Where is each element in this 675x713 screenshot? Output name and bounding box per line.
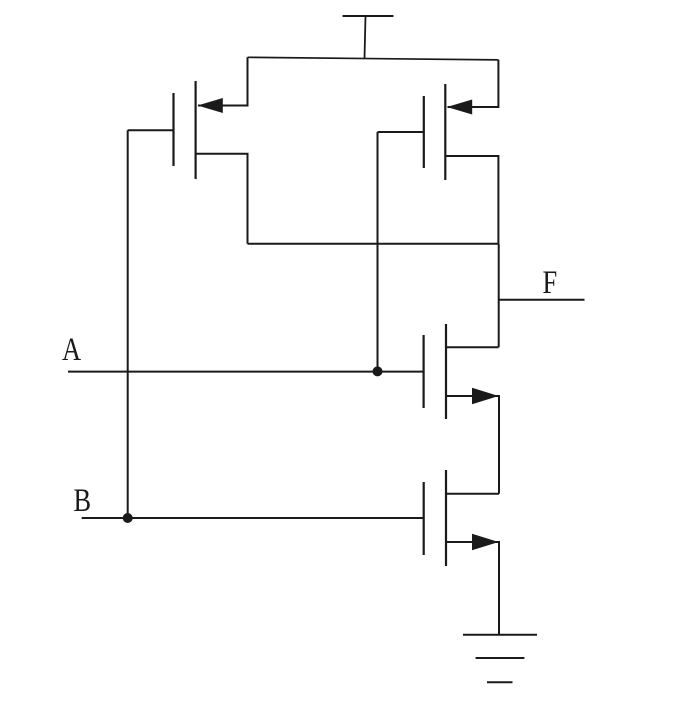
wire Q4 drain stub xyxy=(446,493,499,495)
wire output net horizontal xyxy=(248,243,499,245)
wire Q2 gate stub xyxy=(378,131,424,133)
wire Q2 source to VDD rail xyxy=(448,60,499,107)
Q1 source arrow xyxy=(198,98,223,113)
wire Q3 source down to Q4 drain xyxy=(446,396,499,494)
wire Q3 drain to output net xyxy=(446,346,499,348)
Q2 source arrow xyxy=(447,100,472,115)
ground xyxy=(463,635,537,683)
wire Q4 source down to ground xyxy=(446,542,499,635)
Q4 source arrow xyxy=(472,534,499,550)
wire VDD rail xyxy=(248,57,499,60)
wire output net vertical xyxy=(498,244,500,347)
svg-text:A: A xyxy=(62,331,81,367)
Q2 gate bar xyxy=(423,96,425,168)
transistor Q3 (upper NMOS) xyxy=(424,324,499,419)
Q2 channel bar xyxy=(444,84,446,180)
Q1 gate bar xyxy=(172,93,174,166)
wire Q1 source to VDD rail xyxy=(198,57,248,105)
wire Q2 gate down to node A xyxy=(377,132,379,372)
Q4 channel bar xyxy=(445,470,447,566)
wire Q1 drain down to output net xyxy=(196,154,248,244)
wire input A line xyxy=(68,371,424,373)
Q3 channel bar xyxy=(445,324,447,419)
transistor Q2 (right PMOS) xyxy=(424,84,472,180)
wire Q1 gate down to node B xyxy=(127,130,129,518)
Q1 channel bar xyxy=(195,81,197,179)
wire input B line xyxy=(82,517,424,519)
wire Q1 gate stub xyxy=(128,129,174,131)
svg-text:F: F xyxy=(543,264,558,300)
wire output F lead xyxy=(499,299,585,301)
Q3 source arrow xyxy=(472,388,499,404)
node A junction dot xyxy=(373,366,383,376)
transistor Q1 (left PMOS) xyxy=(174,81,223,179)
Q3 gate bar xyxy=(423,335,425,408)
svg-text:B: B xyxy=(74,482,92,518)
Q4 gate bar xyxy=(423,482,425,555)
VDD power symbol xyxy=(343,16,394,58)
transistor Q4 (lower NMOS) xyxy=(424,470,499,566)
node B junction dot xyxy=(123,513,133,523)
wire Q2 drain down to output net xyxy=(445,156,498,244)
